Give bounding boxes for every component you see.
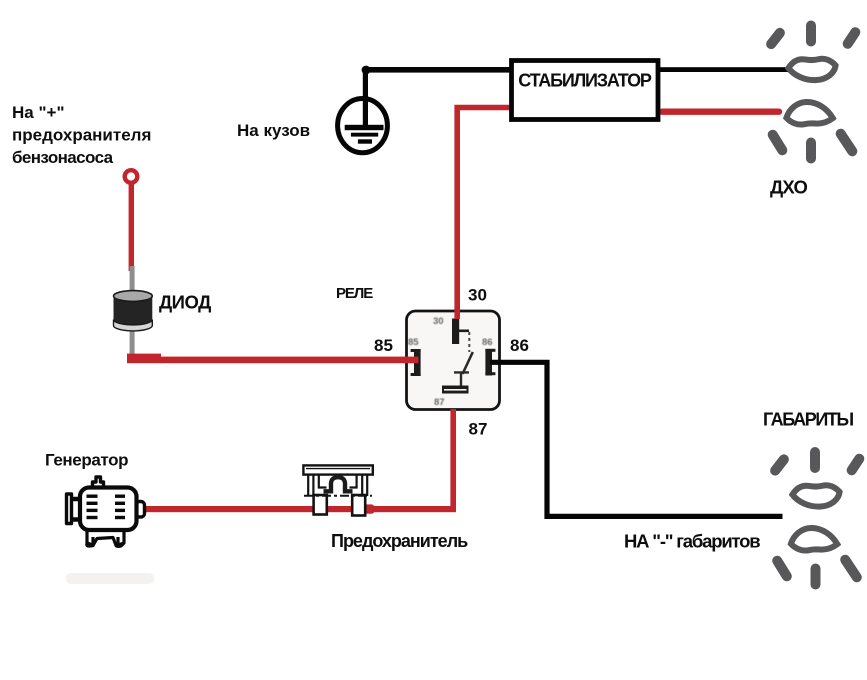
svg-text:На кузов: На кузов	[237, 121, 310, 140]
wire: red from stabilizer to DRL lamp (lower)	[662, 108, 779, 114]
svg-text:СТАБИЛИЗАТОР: СТАБИЛИЗАТОР	[518, 71, 652, 91]
relay pin 85 blade	[411, 349, 421, 376]
relay pin 87 blade	[442, 386, 469, 394]
wire: black from stabilizer to DRL lamp	[657, 67, 788, 72]
svg-text:86: 86	[482, 337, 493, 348]
svg-text:предохранителя: предохранителя	[12, 126, 151, 145]
relay switch blade	[463, 352, 473, 374]
svg-text:ДИОД: ДИОД	[159, 292, 211, 313]
svg-text:30: 30	[433, 316, 444, 327]
relay coil link	[454, 372, 469, 385]
node: junction above ground symbol	[362, 66, 371, 75]
wire: black from relay pin 86 right then down to parking lights	[490, 362, 783, 516]
wire: red from stabilizer left down to relay pin 30	[457, 108, 511, 319]
relay pin 30 blade	[452, 319, 469, 345]
svg-text:Предохранитель: Предохранитель	[331, 531, 468, 551]
svg-text:86: 86	[510, 336, 529, 355]
fuse F1 icon	[303, 465, 372, 515]
svg-text:87: 87	[469, 420, 488, 439]
svg-text:РЕЛЕ: РЕЛЕ	[336, 285, 373, 302]
svg-text:бензонасоса: бензонасоса	[12, 148, 114, 167]
label: На "+" предохранителя бензонасоса	[12, 103, 151, 167]
parking lights icon ГАБАРИТЫ (upper)	[775, 452, 859, 507]
generator vent slots	[87, 495, 126, 520]
diode VD1	[113, 266, 152, 358]
DRL lamp icon (upper)	[771, 26, 855, 81]
svg-text:НА "-" габаритов: НА "-" габаритов	[624, 531, 760, 552]
wire: red into relay pin 30 (stub inside box)	[454, 309, 460, 319]
svg-text:Генератор: Генератор	[45, 451, 128, 470]
svg-text:85: 85	[374, 336, 393, 355]
relay switch armature (dashed)	[468, 332, 470, 352]
generator G1 icon	[67, 477, 145, 546]
DRL lamp icon (lower)	[773, 102, 853, 159]
relay K1 body	[407, 311, 500, 410]
ground symbol (chassis, На кузов)	[338, 99, 388, 153]
relay pin 86 blade	[485, 349, 495, 376]
svg-text:ДХО: ДХО	[770, 177, 807, 198]
wire: black stem from junction down to ground symbol	[363, 67, 368, 127]
svg-text:На "+": На "+"	[12, 103, 65, 122]
terminal ring: to "+" of fuel pump fuse	[125, 170, 138, 183]
svg-text:87: 87	[434, 397, 445, 408]
fuse element (omega)	[324, 477, 353, 491]
wire: red from generator through fuse to pin-87 wire	[141, 506, 456, 512]
faint watermark	[66, 573, 154, 584]
wire: black from ground junction to stabilizer	[363, 67, 512, 73]
wire: red from terminal down to diode	[129, 182, 134, 271]
parking lights icon ГАБАРИТЫ (lower)	[777, 528, 857, 585]
svg-text:ГАБАРИТЫ: ГАБАРИТЫ	[763, 410, 853, 430]
node: red blob at fuse output	[360, 504, 375, 513]
wire: red stub into relay pin 85	[404, 357, 419, 364]
svg-text:30: 30	[468, 286, 487, 305]
wire: red from diode to relay pin 85	[127, 354, 161, 360]
stabilizer box	[512, 61, 659, 120]
wire: red from relay pin 87 down to fuse line	[446, 409, 453, 509]
svg-text:85: 85	[408, 337, 419, 348]
